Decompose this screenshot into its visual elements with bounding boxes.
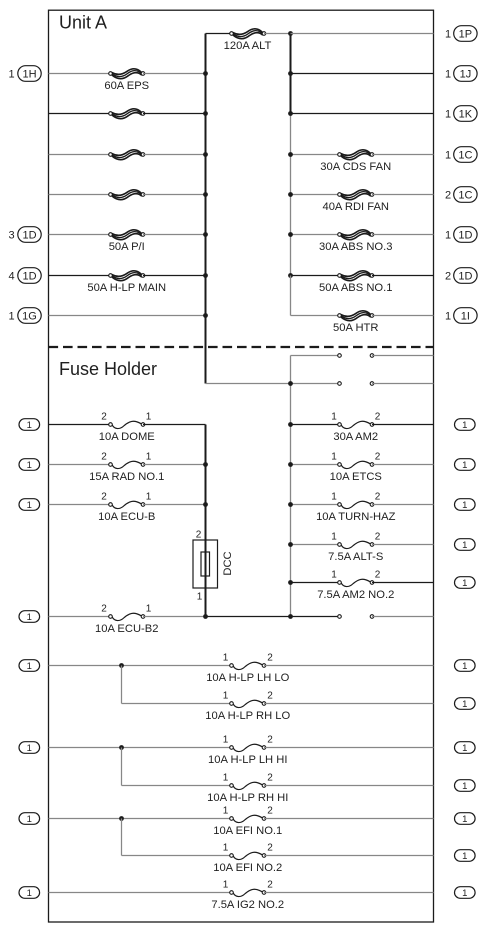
- connector 1K: [454, 106, 477, 122]
- svg-text:1: 1: [462, 500, 467, 511]
- connector terminal 10A H-LP RH HI right: [455, 780, 476, 792]
- junction branch 10A EFI NO.1: [119, 816, 124, 821]
- wire 10A ETCS to edge: [372, 464, 434, 466]
- connector 1D right: [454, 227, 477, 243]
- junction row-4 / bus left: [203, 152, 208, 157]
- svg-text:1: 1: [223, 772, 229, 783]
- svg-text:10A EFI NO.1: 10A EFI NO.1: [213, 825, 282, 837]
- svg-text:1: 1: [462, 888, 467, 899]
- svg-text:1: 1: [331, 531, 337, 542]
- svg-text:15A RAD NO.1: 15A RAD NO.1: [89, 471, 164, 483]
- wire 10A H-LP LH LO to edge: [264, 665, 434, 667]
- svg-text:1P: 1P: [459, 28, 472, 40]
- wire row-5 left to bus: [143, 194, 206, 196]
- svg-text:10A H-LP LH HI: 10A H-LP LH HI: [208, 754, 287, 766]
- svg-text:1: 1: [445, 28, 451, 40]
- wire row-4 left from edge: [49, 154, 111, 156]
- svg-text:30A CDS FAN: 30A CDS FAN: [320, 161, 391, 173]
- wire 50A HTR to edge: [372, 315, 434, 317]
- svg-text:10A TURN-HAZ: 10A TURN-HAZ: [316, 511, 396, 523]
- section divider dashed line: [49, 346, 434, 348]
- junction bus right / 1J wire: [288, 71, 293, 76]
- svg-text:1: 1: [146, 411, 152, 422]
- connector terminal 10A H-LP LH HI left: [19, 742, 40, 754]
- svg-text:50A HTR: 50A HTR: [333, 322, 378, 334]
- svg-text:1: 1: [146, 451, 152, 462]
- svg-text:2: 2: [101, 491, 107, 502]
- terminal circle pair row 3 left: [338, 615, 342, 619]
- connector terminal 7.5A IG2 NO.2 right: [455, 887, 476, 899]
- svg-text:1: 1: [27, 460, 32, 471]
- junction bus right / ABS NO.1: [288, 273, 293, 278]
- junction branch 10A H-LP LH HI: [119, 745, 124, 750]
- svg-text:7.5A ALT-S: 7.5A ALT-S: [328, 551, 383, 563]
- fuse 10A TURN-HAZ: [338, 501, 374, 508]
- svg-text:1: 1: [462, 851, 467, 862]
- svg-text:50A ABS NO.1: 50A ABS NO.1: [319, 282, 392, 294]
- wire main bus right upper (Unit A): [290, 34, 292, 114]
- wire 30A CDS FAN from bus: [291, 154, 340, 156]
- fuse 10A EFI NO.1: [230, 815, 266, 822]
- wire 10A ETCS from bus: [291, 464, 340, 466]
- connector 1C pin2: [454, 187, 477, 203]
- fuse 10A ECU-B: [109, 501, 145, 508]
- wire connector 1G to bus: [49, 315, 206, 317]
- wire 10A ECU-B2 from edge: [49, 616, 111, 618]
- wire row-4 left to bus: [143, 154, 206, 156]
- connector 1C: [454, 147, 477, 163]
- connector 1J: [454, 66, 477, 82]
- connector terminal 10A H-LP LH HI right: [455, 742, 476, 754]
- svg-text:1: 1: [197, 592, 203, 603]
- svg-text:Fuse Holder: Fuse Holder: [59, 359, 157, 379]
- wire 50A P/I from edge: [49, 234, 111, 236]
- junction bus left / 15A RAD NO.1: [203, 462, 208, 467]
- svg-text:1: 1: [27, 888, 32, 899]
- connector 1D pin3: [18, 227, 41, 243]
- svg-text:1D: 1D: [22, 229, 36, 241]
- wire 50A HTR from bus corner: [291, 315, 340, 317]
- terminal circle pair row 1 right: [370, 354, 374, 358]
- wire 10A ECU-B from edge: [49, 504, 111, 506]
- terminal circle pair row 2 left: [338, 382, 342, 386]
- connector terminal 10A EFI NO.2 right: [455, 850, 476, 862]
- connector terminal 10A EFI NO.1 right: [455, 813, 476, 825]
- svg-text:1: 1: [331, 569, 337, 580]
- terminal circle pair row 2 right: [370, 382, 374, 386]
- svg-text:7.5A AM2 NO.2: 7.5A AM2 NO.2: [317, 589, 394, 601]
- wire 10A H-LP LH HI to edge: [264, 747, 434, 749]
- svg-text:1C: 1C: [458, 149, 472, 161]
- fusible link (unlabeled, row 4): [109, 150, 145, 160]
- svg-text:1: 1: [223, 879, 229, 890]
- wire 10A EFI NO.2 from branch: [122, 855, 232, 857]
- svg-text:DCC: DCC: [222, 551, 234, 575]
- junction bus right / 10A TURN-HAZ: [288, 502, 293, 507]
- wire 50A H-LP MAIN to bus: [143, 275, 206, 277]
- wire 10A H-LP RH HI from branch: [122, 785, 232, 787]
- fusible link 60A EPS: [109, 69, 145, 79]
- fuse 10A H-LP LH LO: [230, 662, 266, 669]
- svg-text:2: 2: [267, 805, 273, 816]
- wire main bus left (Unit A): [205, 34, 207, 384]
- connector terminal 30A AM2: [455, 419, 476, 431]
- svg-text:10A ECU-B: 10A ECU-B: [98, 511, 155, 523]
- svg-text:2: 2: [375, 451, 381, 462]
- terminal circle pair row 1 left: [338, 354, 342, 358]
- wire 10A EFI NO.1 to edge: [264, 818, 434, 820]
- fuse 30A AM2: [338, 421, 374, 428]
- junction row-3 / bus left: [203, 111, 208, 116]
- wire 10A H-LP RH LO to edge: [264, 703, 434, 705]
- svg-text:10A H-LP RH HI: 10A H-LP RH HI: [207, 792, 288, 804]
- svg-text:120A ALT: 120A ALT: [224, 40, 272, 52]
- svg-text:2: 2: [267, 734, 273, 745]
- wire 40A RDI FAN to edge: [372, 194, 434, 196]
- junction bus right / 7.5A ALT-S: [288, 542, 293, 547]
- svg-text:1: 1: [445, 68, 451, 80]
- svg-text:1: 1: [462, 460, 467, 471]
- svg-text:1: 1: [8, 68, 14, 80]
- svg-text:30A AM2: 30A AM2: [333, 431, 378, 443]
- fuse 10A H-LP RH HI: [230, 782, 266, 789]
- svg-text:2: 2: [101, 411, 107, 422]
- wire branch drop to 10A EFI NO.2: [121, 819, 123, 856]
- wire 10A EFI NO.1 from edge: [49, 818, 232, 820]
- svg-text:1G: 1G: [22, 310, 37, 322]
- svg-text:2: 2: [267, 690, 273, 701]
- svg-text:1H: 1H: [22, 68, 36, 80]
- svg-text:50A P/I: 50A P/I: [109, 241, 145, 253]
- svg-text:2: 2: [445, 270, 451, 282]
- svg-text:1: 1: [223, 690, 229, 701]
- wire 50A ABS NO.1 to edge: [372, 275, 434, 277]
- connector terminal 10A ECU-B2: [19, 611, 40, 623]
- svg-text:10A EFI NO.2: 10A EFI NO.2: [213, 862, 282, 874]
- connector terminal 10A EFI NO.1 left: [19, 813, 40, 825]
- svg-text:1C: 1C: [458, 189, 472, 201]
- wire 7.5A IG2 NO.2 from edge: [49, 892, 232, 894]
- svg-text:1: 1: [27, 743, 32, 754]
- svg-text:2: 2: [375, 569, 381, 580]
- junction 50A P/I / bus left: [203, 232, 208, 237]
- svg-text:2: 2: [267, 772, 273, 783]
- connector terminal 10A H-LP LH LO right: [455, 660, 476, 672]
- connector terminal 7.5A IG2 NO.2 left: [19, 887, 40, 899]
- svg-text:10A ETCS: 10A ETCS: [330, 471, 382, 483]
- wire 120A ALT left segment: [206, 33, 232, 35]
- fuse 10A DOME: [109, 421, 145, 428]
- wire 50A P/I to bus: [143, 234, 206, 236]
- wire connector pair row 1 right segment: [372, 355, 434, 357]
- wire to connector 1J: [291, 73, 434, 75]
- junction bus right / pair row 2: [288, 381, 293, 386]
- fusible link 50A P/I: [109, 230, 145, 240]
- wire connector pair row 2 left segment: [206, 383, 340, 385]
- wire 10A H-LP LH HI from edge: [49, 747, 232, 749]
- wire connector pair row 3 left segment: [291, 616, 340, 618]
- connector 1D right pin2: [454, 268, 477, 284]
- wire connector pair row 3 right segment: [372, 616, 434, 618]
- svg-text:2: 2: [375, 411, 381, 422]
- svg-text:2: 2: [196, 530, 202, 541]
- wire fuse-holder bus left: [205, 425, 207, 617]
- wire row-5 left from edge: [49, 194, 111, 196]
- svg-text:1: 1: [462, 540, 467, 551]
- junction bus right / 10A ETCS: [288, 462, 293, 467]
- wire 10A H-LP LH LO from edge: [49, 665, 232, 667]
- wire 7.5A ALT-S from bus: [291, 544, 340, 546]
- svg-text:10A DOME: 10A DOME: [99, 431, 155, 443]
- wire 60A EPS from edge: [49, 73, 111, 75]
- svg-text:1: 1: [462, 420, 467, 431]
- wire row-3 left to bus: [143, 113, 206, 115]
- wire 7.5A ALT-S to edge: [372, 544, 434, 546]
- fusible link 40A RDI FAN: [338, 190, 374, 200]
- fuse 10A EFI NO.2: [230, 852, 266, 859]
- wire branch drop to 10A H-LP RH HI: [121, 748, 123, 786]
- wire 40A RDI FAN from bus: [291, 194, 340, 196]
- wire 30A CDS FAN to edge: [372, 154, 434, 156]
- fusible link 30A ABS NO.3: [338, 230, 374, 240]
- wire bus right lower (Unit A): [290, 114, 292, 277]
- svg-text:10A ECU-B2: 10A ECU-B2: [95, 623, 158, 635]
- svg-text:1D: 1D: [458, 270, 472, 282]
- fusible link 30A CDS FAN: [338, 150, 374, 160]
- fusible link (unlabeled, row 3): [109, 109, 145, 119]
- wire 30A ABS NO.3 to edge: [372, 234, 434, 236]
- svg-text:1: 1: [445, 229, 451, 241]
- junction 1G wire / bus left: [203, 313, 208, 318]
- fusible link 50A HTR: [338, 311, 374, 321]
- svg-text:1: 1: [331, 451, 337, 462]
- svg-text:1: 1: [445, 108, 451, 120]
- svg-text:1K: 1K: [459, 108, 473, 120]
- svg-text:1: 1: [462, 661, 467, 672]
- svg-text:4: 4: [8, 270, 14, 282]
- junction 120A ALT / bus right: [288, 31, 293, 36]
- fusible link 50A H-LP MAIN: [109, 271, 145, 281]
- fuse 10A ETCS: [338, 461, 374, 468]
- wire 60A EPS to bus: [143, 73, 206, 75]
- connector terminal 10A ECU-B: [19, 499, 40, 511]
- svg-text:2: 2: [267, 842, 273, 853]
- fusible link 120A ALT: [230, 29, 266, 39]
- connector terminal 10A H-LP RH LO right: [455, 698, 476, 710]
- junction bus right / ECU-B2 row: [288, 614, 293, 619]
- svg-text:1: 1: [462, 578, 467, 589]
- junction row-5 / bus left: [203, 192, 208, 197]
- svg-text:1: 1: [223, 734, 229, 745]
- svg-text:3: 3: [8, 229, 14, 241]
- svg-text:1: 1: [146, 491, 152, 502]
- connector 1D pin4: [18, 268, 41, 284]
- junction bus right / RDI FAN: [288, 192, 293, 197]
- wire 15A RAD NO.1 to bus: [143, 464, 206, 466]
- wire bus left to bus right (ECU-B2 row): [206, 616, 291, 618]
- connector terminal 10A ETCS: [455, 459, 476, 471]
- wire 7.5A IG2 NO.2 to edge: [264, 892, 434, 894]
- wire branch drop to 10A H-LP RH LO: [121, 666, 123, 704]
- fuse 10A H-LP RH LO: [230, 700, 266, 707]
- svg-text:1: 1: [27, 612, 32, 623]
- component DCC outer body: [193, 540, 218, 588]
- svg-text:2: 2: [267, 652, 273, 663]
- junction bus right / CDS FAN: [288, 152, 293, 157]
- connector terminal 10A DOME: [19, 419, 40, 431]
- connector terminal 15A RAD NO.1: [19, 459, 40, 471]
- wire 10A H-LP RH LO from branch: [122, 703, 232, 705]
- connector 1P: [454, 26, 477, 42]
- wire 10A TURN-HAZ to edge: [372, 504, 434, 506]
- fuse 15A RAD NO.1: [109, 461, 145, 468]
- svg-text:7.5A IG2 NO.2: 7.5A IG2 NO.2: [211, 899, 284, 911]
- svg-text:1: 1: [223, 652, 229, 663]
- connector terminal 10A H-LP LH LO left: [19, 660, 40, 672]
- wire connector pair row 2 right segment: [372, 383, 434, 385]
- svg-text:2: 2: [101, 603, 107, 614]
- wire 30A AM2 to edge: [372, 424, 434, 426]
- svg-text:1: 1: [331, 491, 337, 502]
- svg-text:1J: 1J: [460, 68, 472, 80]
- connector 1G: [18, 308, 41, 324]
- wire 10A ECU-B2 to bus: [143, 616, 206, 618]
- svg-text:10A H-LP LH LO: 10A H-LP LH LO: [206, 672, 289, 684]
- fuse 7.5A AM2 NO.2: [338, 579, 374, 586]
- svg-text:60A EPS: 60A EPS: [104, 80, 149, 92]
- connector terminal 7.5A ALT-S: [455, 539, 476, 551]
- wire 50A ABS NO.1 from bus: [291, 275, 340, 277]
- wire 10A DOME from edge: [49, 424, 111, 426]
- junction bus right / 30A AM2: [288, 422, 293, 427]
- wire 10A TURN-HAZ from bus: [291, 504, 340, 506]
- fusible link (unlabeled, row 5): [109, 190, 145, 200]
- svg-text:Unit A: Unit A: [59, 13, 107, 33]
- wire 10A EFI NO.2 to edge: [264, 855, 434, 857]
- fuse 7.5A ALT-S: [338, 541, 374, 548]
- svg-text:40A RDI FAN: 40A RDI FAN: [322, 201, 389, 213]
- svg-text:1: 1: [223, 842, 229, 853]
- junction bus right / ABS NO.3: [288, 232, 293, 237]
- junction bus right / 1K wire: [288, 111, 293, 116]
- connector 1I: [454, 308, 477, 324]
- wire 7.5A AM2 NO.2 to edge: [372, 582, 434, 584]
- svg-text:2: 2: [267, 879, 273, 890]
- svg-text:1D: 1D: [458, 229, 472, 241]
- svg-text:1: 1: [27, 500, 32, 511]
- junction 60A EPS / bus left: [203, 71, 208, 76]
- junction branch 10A H-LP LH LO: [119, 663, 124, 668]
- svg-text:2: 2: [375, 531, 381, 542]
- fuse 10A ECU-B2: [109, 613, 145, 620]
- wire connector pair row 1 left segment: [291, 355, 340, 357]
- wire 15A RAD NO.1 from edge: [49, 464, 111, 466]
- connector terminal 10A TURN-HAZ: [455, 499, 476, 511]
- wire 30A AM2 from bus: [291, 424, 340, 426]
- wire 10A DOME to bus corner: [143, 424, 206, 426]
- component DCC inner element: [201, 552, 210, 576]
- diagram frame: [49, 10, 434, 922]
- connector terminal 7.5A AM2 NO.2: [455, 577, 476, 589]
- junction bus left / 10A ECU-B: [203, 502, 208, 507]
- svg-text:1: 1: [462, 699, 467, 710]
- wire bus drop to 50A HTR: [290, 276, 292, 316]
- wire 10A H-LP RH HI to edge: [264, 785, 434, 787]
- junction bus right / 7.5A AM2 NO.2: [288, 580, 293, 585]
- svg-text:10A H-LP RH LO: 10A H-LP RH LO: [205, 710, 290, 722]
- svg-text:1: 1: [462, 781, 467, 792]
- junction 50A H-LP MAIN / bus left: [203, 273, 208, 278]
- svg-text:1: 1: [445, 149, 451, 161]
- wire 7.5A AM2 NO.2 from bus: [291, 582, 340, 584]
- svg-text:1: 1: [146, 603, 152, 614]
- wire row-3 left from edge: [49, 113, 111, 115]
- svg-text:2: 2: [101, 451, 107, 462]
- fuse 7.5A IG2 NO.2: [230, 889, 266, 896]
- svg-text:1: 1: [27, 420, 32, 431]
- wire main bus drop from Unit A: [205, 347, 207, 384]
- svg-text:2: 2: [445, 189, 451, 201]
- terminal circle pair row 3 right: [370, 615, 374, 619]
- fusible link 50A ABS NO.1: [338, 271, 374, 281]
- wire bus right (Fuse Holder): [290, 356, 292, 617]
- svg-text:1: 1: [27, 661, 32, 672]
- svg-text:1: 1: [331, 411, 337, 422]
- wire to connector 1P: [291, 33, 434, 35]
- svg-text:1: 1: [462, 743, 467, 754]
- wire 10A ECU-B to bus: [143, 504, 206, 506]
- svg-text:1: 1: [27, 814, 32, 825]
- svg-text:1: 1: [462, 814, 467, 825]
- svg-text:1: 1: [8, 310, 14, 322]
- wire 30A ABS NO.3 from bus: [291, 234, 340, 236]
- connector 1H: [18, 66, 41, 82]
- svg-text:50A H-LP MAIN: 50A H-LP MAIN: [87, 282, 166, 294]
- fuse 10A H-LP LH HI: [230, 744, 266, 751]
- svg-text:2: 2: [375, 491, 381, 502]
- wire 120A ALT right segment: [264, 33, 291, 35]
- wire 50A H-LP MAIN from edge: [49, 275, 111, 277]
- svg-text:30A ABS NO.3: 30A ABS NO.3: [319, 241, 392, 253]
- svg-text:1: 1: [445, 310, 451, 322]
- svg-text:1: 1: [223, 805, 229, 816]
- wire to connector 1K: [291, 113, 434, 115]
- svg-text:1D: 1D: [22, 270, 36, 282]
- svg-text:1I: 1I: [461, 310, 470, 322]
- junction bus left / 10A ECU-B2: [203, 614, 208, 619]
